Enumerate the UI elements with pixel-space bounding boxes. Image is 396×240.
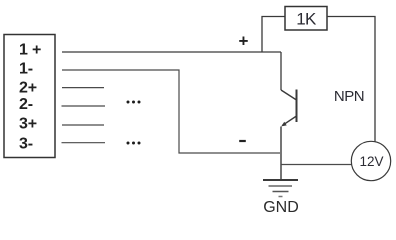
resistor R1 body [285, 7, 327, 31]
svg-text:2+: 2+ [19, 80, 37, 97]
svg-text:3-: 3- [19, 136, 33, 153]
svg-text:+: + [239, 32, 249, 51]
svg-text:12V: 12V [359, 154, 383, 169]
ground bar 4 [279, 196, 283, 198]
wire 1+ to collector node [62, 51, 281, 53]
node label - [239, 140, 246, 142]
transistor Q1 collector lead [281, 90, 297, 100]
svg-text:NPN: NPN [334, 88, 364, 105]
stub wire 3+ [62, 124, 104, 126]
stub wire 2- [62, 105, 106, 107]
transistor Q1 emitter arrow [281, 122, 287, 127]
transistor Q1 emitter lead [283, 116, 297, 125]
wire tap up to resistor R1 [262, 17, 285, 53]
svg-text:2-: 2- [19, 96, 33, 113]
ellipsis dots lower [127, 142, 141, 145]
voltage source V1 circle [351, 141, 390, 180]
svg-text:1K: 1K [296, 10, 317, 29]
wire emitter down to ground [280, 127, 282, 180]
svg-text:1 +: 1 + [19, 42, 41, 59]
wire R1 to supply rail [327, 17, 375, 143]
ellipsis dots upper [127, 101, 141, 104]
ground bar 3 [273, 191, 289, 193]
svg-text:3+: 3+ [19, 116, 37, 133]
wire collector drop [280, 52, 282, 90]
transistor Q1 base bar [296, 90, 298, 123]
terminal block J1 [4, 35, 55, 158]
stub wire 2+ [62, 87, 104, 89]
svg-text:1-: 1- [19, 61, 33, 78]
stub wire 3- [62, 142, 106, 144]
svg-text:GND: GND [263, 199, 299, 216]
ground bar 1 [263, 179, 298, 181]
wire 1- to emitter node [62, 70, 280, 153]
ground bar 2 [269, 185, 293, 187]
wire emitter node to supply V1 [281, 164, 352, 166]
